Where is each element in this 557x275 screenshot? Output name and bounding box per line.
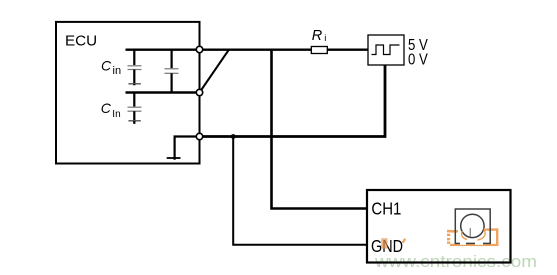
svg-text:R: R xyxy=(312,28,323,44)
svg-text:ECU: ECU xyxy=(65,32,97,49)
svg-text:0 V: 0 V xyxy=(408,51,428,68)
svg-text:CH1: CH1 xyxy=(371,198,401,218)
svg-text:In: In xyxy=(112,109,120,120)
svg-text:i: i xyxy=(324,33,326,44)
svg-text:in: in xyxy=(113,65,122,77)
svg-text:C: C xyxy=(101,57,112,73)
svg-text:C: C xyxy=(101,100,112,116)
